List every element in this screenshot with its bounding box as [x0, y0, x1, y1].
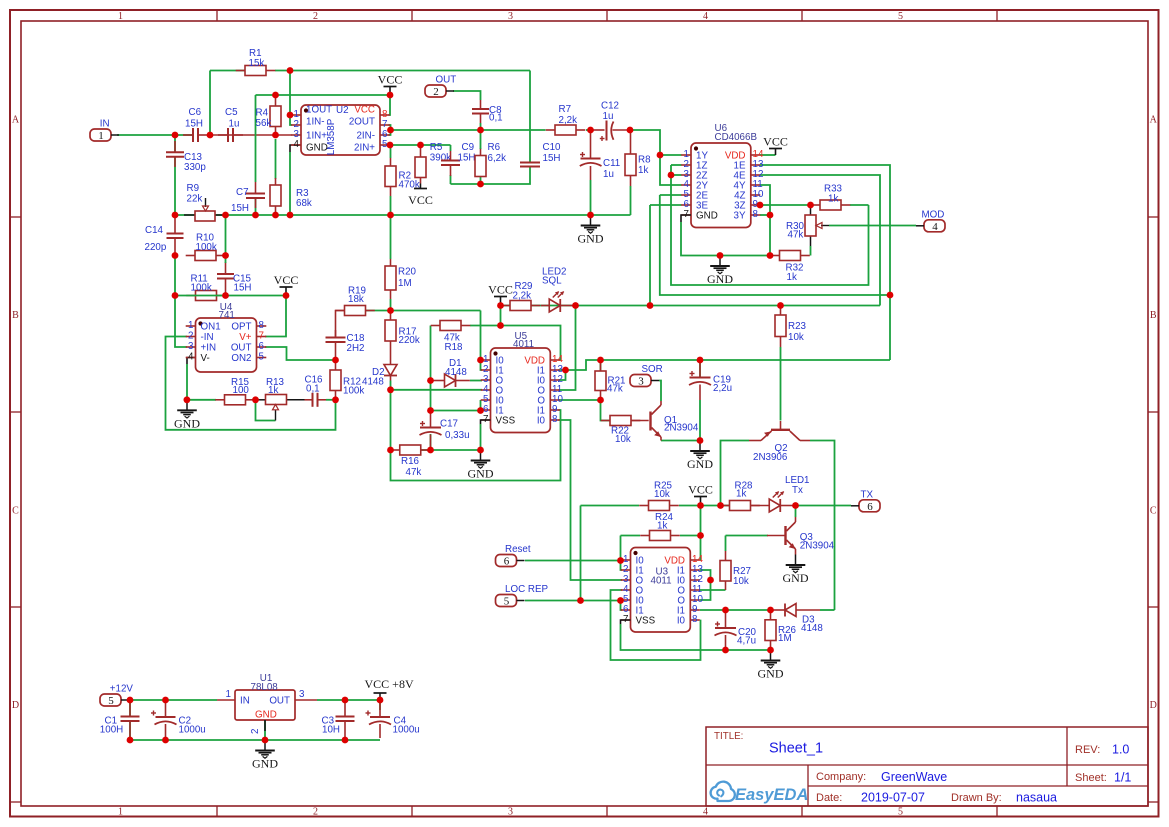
svg-text:VCC: VCC — [354, 105, 375, 116]
wire VCC to U4 pin7 — [265, 296, 286, 337]
svg-text:1IN-: 1IN- — [306, 117, 325, 128]
wire R1 left — [210, 70, 246, 72]
wire C8 bottom to row — [480, 123, 482, 130]
label R10 — [196, 233, 217, 254]
wire C16 to R12 — [326, 399, 336, 401]
label R16 — [401, 456, 421, 478]
svg-text:2019-07-07: 2019-07-07 — [861, 791, 925, 805]
label U4 — [219, 302, 235, 321]
wire U6 pin3 — [671, 174, 682, 176]
resistor R15 — [215, 395, 255, 405]
title block texts — [714, 731, 1131, 805]
pin 8 (VCC) of U2 — [354, 105, 389, 121]
resistor R26 — [765, 610, 776, 650]
wire R27 bottom to U3 pin11 — [700, 589, 726, 591]
svg-text:2,2k: 2,2k — [559, 115, 578, 126]
svg-text:C14: C14 — [145, 225, 164, 236]
label R3 — [296, 188, 312, 209]
wire +8V rail right — [317, 699, 380, 701]
wire OUT port to C8 — [453, 91, 481, 100]
port TX — [851, 489, 880, 513]
wire LED row y305 — [501, 305, 881, 307]
label C1 — [100, 716, 123, 736]
pin 13 (I1) of U3 — [677, 564, 704, 577]
capacitor C15 — [217, 262, 234, 296]
pin 9 (3Z) of U6 — [734, 199, 760, 212]
svg-text:R16: R16 — [401, 456, 420, 467]
svg-text:Reset: Reset — [505, 544, 531, 555]
wire R7 to C11 node — [586, 129, 591, 131]
pin 13 (1E) of U6 — [734, 159, 764, 172]
wire VCC row y95 — [256, 94, 391, 96]
svg-text:78L08: 78L08 — [251, 682, 279, 693]
svg-text:R5: R5 — [430, 142, 443, 153]
capacitor C8 — [472, 100, 489, 123]
pin 3 (O) of U5 — [481, 374, 504, 387]
svg-text:VCC: VCC — [688, 483, 713, 497]
pin 7 (2OUT) of U2 — [349, 117, 390, 131]
svg-text:0,1: 0,1 — [306, 384, 320, 395]
wire R4-R3 column — [275, 139, 277, 179]
wire U1 GND pin — [264, 720, 266, 740]
pin 11 (4Y) of U6 — [734, 179, 763, 192]
pin 8 (I0) of U3 — [677, 614, 700, 627]
svg-text:V+: V+ — [239, 332, 252, 343]
label R1 — [249, 48, 265, 69]
label C13 — [184, 152, 206, 173]
pin 2 (1Z) of U6 — [681, 159, 707, 172]
wire U4 pin4 lead — [187, 358, 196, 365]
wire U5 pins 12-13 tie — [559, 370, 566, 380]
svg-text:100k: 100k — [196, 242, 217, 253]
wire R1 left down to input node — [209, 71, 211, 136]
svg-text:Sheet:: Sheet: — [1075, 772, 1107, 784]
label LED1 — [785, 475, 810, 496]
label C3 — [322, 716, 340, 736]
wire R25 right to VCC node — [679, 505, 701, 507]
diode D3 — [771, 604, 821, 617]
wire to R22 — [601, 400, 611, 421]
resistor R28 — [720, 501, 760, 511]
port IN — [90, 119, 119, 143]
label R19 — [348, 286, 366, 306]
wire Q2 collector down to D3 — [810, 441, 835, 611]
svg-text:GND: GND — [758, 667, 784, 681]
svg-text:1: 1 — [98, 130, 104, 142]
svg-text:2H2: 2H2 — [347, 343, 365, 354]
svg-text:R18: R18 — [445, 342, 464, 353]
svg-text:47k: 47k — [788, 230, 804, 241]
label C20 — [737, 627, 757, 647]
wire oscillator net y360 — [566, 360, 891, 370]
wire C12/R8 node to U6 pins 1,4 — [630, 130, 682, 185]
label U3 — [651, 567, 672, 587]
wire C10 bottom row — [451, 167, 531, 184]
ground GND7 — [758, 650, 784, 681]
LED LED1 — [769, 492, 795, 513]
wire R25 to LOC REP net — [580, 506, 582, 601]
resistor R4 — [270, 95, 281, 135]
svg-text:2N3906: 2N3906 — [753, 452, 788, 463]
pin 12 (4E) of U6 — [734, 169, 764, 182]
capacitor C6 — [183, 128, 209, 142]
label D3 — [801, 615, 823, 635]
svg-text:C7: C7 — [236, 187, 249, 198]
pin 5 (2E) of U6 — [681, 189, 708, 202]
svg-text:1k: 1k — [638, 165, 648, 176]
ground GND8 — [252, 740, 278, 771]
svg-text:VCC: VCC — [378, 73, 403, 87]
label R4 — [256, 108, 272, 130]
pin 2 (-IN) of U4 — [186, 331, 214, 344]
resistor R33 — [811, 200, 851, 210]
wire D3 right to column — [820, 609, 835, 611]
potentiometer R30 — [805, 205, 829, 246]
resistor R6 — [475, 148, 486, 177]
svg-text:VCC: VCC — [763, 135, 788, 149]
resistor R29 — [501, 301, 541, 311]
pin 3 (O) of U3 — [621, 574, 644, 587]
label R15 — [231, 377, 250, 396]
wire U6 pin11 down to R32 node — [760, 185, 770, 256]
svg-text:1OUT: 1OUT — [306, 105, 332, 116]
wire R24 left — [621, 535, 641, 537]
port OUT — [425, 75, 456, 99]
pin 11 (O) of U5 — [537, 384, 562, 397]
svg-text:2: 2 — [313, 11, 318, 22]
wire U3 pin7 lead — [621, 620, 631, 624]
pin 3 (OUT) of U1 — [269, 689, 317, 707]
wire U2 GND pin down — [289, 152, 291, 215]
svg-text:1000u: 1000u — [179, 725, 206, 736]
transistor Q3 — [767, 517, 796, 555]
svg-text:2OUT: 2OUT — [349, 117, 375, 128]
wire GND to R15 — [187, 399, 216, 401]
wire R2 bottom to GND row — [390, 196, 392, 215]
pin 1 (I0) of U5 — [481, 354, 505, 367]
wire R24 down to Reset net — [620, 536, 622, 561]
svg-text:5: 5 — [898, 807, 903, 818]
wire C7 column upper — [255, 95, 257, 182]
resistor R19 — [335, 306, 375, 316]
capacitor C16 — [305, 393, 327, 407]
resistor R7 — [546, 125, 586, 135]
IC body U3 — [631, 548, 691, 633]
resistor R25 — [639, 501, 679, 511]
wire U6 pin7 lead — [681, 215, 691, 222]
label R5 — [430, 142, 451, 164]
label R7 — [559, 104, 578, 126]
diode D1 — [431, 374, 470, 387]
svg-text:22k: 22k — [187, 194, 203, 205]
svg-text:Tx: Tx — [792, 485, 803, 496]
pin 5 (ON2) of U4 — [231, 352, 266, 365]
svg-text:7: 7 — [259, 331, 264, 342]
resistor R27 — [720, 551, 731, 590]
svg-text:2: 2 — [313, 807, 318, 818]
resistor R12 — [330, 360, 341, 400]
svg-text:OPT: OPT — [231, 322, 251, 333]
wire down to R16 — [390, 390, 392, 450]
wire U2 pin4 lead — [290, 145, 301, 152]
svg-text:10k: 10k — [654, 489, 670, 500]
svg-text:1: 1 — [118, 11, 123, 22]
pin 7 (VSS) of U3 — [621, 614, 656, 627]
pin 8 (3Y) of U6 — [734, 209, 761, 222]
ground GND6 — [783, 555, 809, 586]
wire C7 column lower — [255, 198, 257, 215]
svg-text:1u: 1u — [229, 119, 240, 130]
port SOR — [630, 364, 663, 388]
label R11 — [191, 274, 212, 294]
wire R18 right — [470, 325, 501, 327]
svg-text:SQL: SQL — [542, 276, 562, 287]
wire feedback to U4 pin2 — [166, 337, 336, 430]
potentiometer R13 — [256, 395, 305, 421]
wire LOC REP to U3 pins 5-6 — [525, 600, 621, 602]
pin 12 (I0) of U5 — [537, 374, 563, 387]
pin 6 (I1) of U5 — [481, 404, 504, 417]
capacitor C20 — [715, 610, 737, 650]
label U2 — [326, 105, 349, 155]
label C19 — [713, 375, 732, 395]
wire U5 VSS down to ground — [480, 424, 482, 450]
svg-text:GreenWave: GreenWave — [881, 770, 947, 784]
svg-text:VSS: VSS — [636, 616, 656, 627]
wire R23 to Q2 base — [780, 347, 782, 421]
svg-text:100k: 100k — [343, 386, 364, 397]
wire input column — [174, 256, 176, 296]
pin 4 (GND) of U2 — [291, 139, 328, 154]
port Reset — [496, 544, 531, 568]
svg-text:GND: GND — [306, 143, 328, 154]
svg-text:GND: GND — [578, 232, 604, 246]
resistor R1 — [236, 66, 276, 76]
capacitor C5 — [218, 128, 243, 142]
wire R1 right / feedback net — [275, 70, 530, 72]
capacitor C10 — [520, 163, 540, 168]
wire U5 pin10 to R21 bottom — [559, 399, 601, 401]
capacitor C1 — [121, 702, 140, 738]
svg-text:2N3904: 2N3904 — [800, 541, 835, 552]
wire D2 to U5 pin4 — [391, 389, 483, 391]
svg-text:4: 4 — [294, 139, 300, 150]
svg-text:56k: 56k — [256, 118, 272, 129]
ground GND3 — [174, 400, 200, 431]
pin 5 (I0) of U3 — [621, 594, 645, 607]
wire R16 node to U5 pin9 — [391, 410, 561, 481]
svg-text:C5: C5 — [225, 107, 238, 118]
wire tie pin6 — [621, 601, 623, 611]
label R26 — [778, 625, 797, 644]
svg-text:741: 741 — [219, 310, 235, 321]
resistor R16 — [390, 445, 430, 455]
pin 14 (VDD) of U3 — [664, 554, 703, 567]
label C11 — [603, 158, 620, 180]
label R25 — [654, 481, 673, 501]
svg-text:5: 5 — [504, 596, 510, 608]
svg-text:VSS: VSS — [496, 416, 516, 427]
svg-text:B: B — [12, 310, 19, 321]
svg-text:R20: R20 — [398, 267, 417, 278]
svg-text:15H: 15H — [185, 119, 203, 130]
svg-text:4148: 4148 — [362, 377, 384, 388]
label R30 — [786, 221, 805, 241]
svg-text:R4: R4 — [256, 108, 269, 119]
ground GND5 — [687, 441, 713, 472]
power VCC below R5 — [408, 184, 433, 208]
label D2 — [362, 367, 385, 388]
wire R27 top to Q3 base — [726, 535, 769, 537]
svg-text:Date:: Date: — [816, 792, 842, 804]
svg-text:47k: 47k — [406, 467, 422, 478]
pin 2 (I1) of U3 — [621, 564, 644, 577]
svg-text:SOR: SOR — [642, 364, 663, 375]
IC body U4 — [196, 318, 257, 372]
svg-text:R23: R23 — [788, 321, 807, 332]
wire C9 bottom — [450, 175, 452, 184]
svg-text:0,33u: 0,33u — [445, 430, 470, 441]
potentiometer R9 — [184, 198, 226, 221]
label C17 — [440, 419, 470, 442]
capacitor C13 — [166, 141, 184, 167]
title block frame — [706, 727, 1148, 806]
label R6 — [488, 142, 507, 164]
wire R21 top — [600, 360, 602, 371]
resistor R5 — [415, 145, 426, 184]
capacitor C18 — [326, 330, 346, 360]
label R21 — [607, 376, 625, 395]
svg-text:B: B — [1150, 310, 1157, 321]
wire 2E net y295 — [660, 195, 890, 295]
label R29 — [513, 281, 533, 302]
svg-text:2: 2 — [433, 86, 439, 98]
svg-text:1IN+: 1IN+ — [306, 131, 327, 142]
wire R33 right — [850, 204, 869, 206]
transistor Q2 — [749, 421, 810, 441]
svg-text:8: 8 — [692, 614, 698, 625]
svg-text:1: 1 — [226, 689, 231, 700]
capacitor C7 — [246, 182, 265, 208]
resistor R21 — [595, 360, 606, 400]
svg-text:8: 8 — [753, 209, 759, 220]
svg-text:ON2: ON2 — [231, 353, 251, 364]
svg-text:I0: I0 — [677, 616, 686, 627]
wire Reset to U3 pins 1-2 — [525, 560, 621, 562]
svg-text:1u: 1u — [603, 169, 614, 180]
label R23 — [788, 321, 807, 343]
pin 6 (OUT) of U4 — [231, 341, 266, 354]
svg-text:C11: C11 — [603, 158, 620, 169]
capacitor C19 — [689, 360, 711, 400]
svg-text:6: 6 — [867, 501, 873, 513]
svg-text:D: D — [12, 700, 19, 711]
svg-text:1: 1 — [118, 807, 123, 818]
wire Q2 emitter to VCC row — [721, 441, 750, 506]
wire pin6 row y130 to R7 — [391, 129, 546, 131]
pin 4 (O) of U3 — [621, 584, 644, 597]
pin 10 (4Z) of U6 — [734, 189, 764, 202]
capacitor C3 — [336, 702, 355, 738]
pin 1 (1OUT) of U2 — [291, 105, 332, 121]
svg-text:3Y: 3Y — [734, 211, 746, 222]
wire branch U5 pin1 — [481, 359, 483, 361]
label C9 — [458, 142, 476, 164]
svg-text:2IN+: 2IN+ — [354, 143, 375, 154]
svg-text:C9: C9 — [462, 142, 475, 153]
wire R25 left — [581, 505, 640, 507]
wire down to U5 pins 1-2 — [481, 311, 483, 371]
pin 4 (2Y) of U6 — [681, 179, 708, 192]
pin 7 (V+) of U4 — [239, 331, 266, 344]
wire U4 V- down — [186, 364, 188, 400]
power VCC1 — [378, 73, 403, 96]
svg-text:390k: 390k — [430, 153, 451, 164]
wire R19 to C18 — [336, 311, 345, 338]
svg-text:OUT: OUT — [269, 696, 290, 707]
wire U3 pin9 to C20/R26/D3 — [700, 609, 771, 611]
wire 3E down to LED row — [649, 205, 651, 306]
svg-text:330p: 330p — [184, 162, 206, 173]
svg-text:1: 1 — [188, 320, 193, 331]
resistor R18 — [431, 321, 471, 331]
ground GND2 — [707, 256, 733, 287]
label R17 — [399, 327, 420, 347]
pin 7 (VSS) of U5 — [481, 414, 516, 427]
wire pin5 down to R2 — [390, 145, 392, 158]
svg-text:3: 3 — [188, 341, 194, 352]
label R27 — [733, 566, 751, 587]
svg-text:IN: IN — [240, 696, 250, 707]
svg-text:1/1: 1/1 — [1114, 771, 1131, 785]
pin 6 (2IN-) of U2 — [356, 129, 389, 142]
svg-text:100H: 100H — [100, 725, 123, 736]
svg-text:Sheet_1: Sheet_1 — [769, 741, 823, 757]
svg-text:4: 4 — [703, 807, 708, 818]
svg-text:47k: 47k — [607, 384, 623, 395]
svg-text:4011: 4011 — [513, 339, 534, 350]
wire C4 top — [379, 700, 381, 710]
wire U3 pin3 to U5 pin8 — [559, 420, 623, 580]
svg-text:C: C — [1150, 505, 1157, 516]
svg-text:6: 6 — [504, 556, 510, 568]
pin 4 (V-) of U4 — [186, 352, 210, 365]
svg-text:5: 5 — [259, 352, 265, 363]
label D1 — [445, 358, 467, 378]
capacitor C2 — [151, 702, 177, 738]
pin 3 (+IN) of U4 — [186, 341, 216, 354]
capacitor C17 — [420, 411, 442, 451]
wire VCC down to U3 VDD — [699, 506, 702, 561]
svg-text:1.0: 1.0 — [1112, 743, 1129, 757]
svg-text:nasaua: nasaua — [1016, 791, 1057, 805]
svg-text:3: 3 — [299, 689, 305, 700]
pin 1 (IN) of U1 — [217, 689, 250, 707]
power VCC2 — [274, 273, 299, 294]
capacitor C11 — [580, 130, 602, 180]
svg-text:15k: 15k — [249, 58, 265, 69]
wire R30 wiper to MOD port — [829, 225, 916, 227]
wire R16 to VSS ground node — [421, 449, 481, 451]
label C2 — [179, 716, 206, 736]
label R28 — [735, 481, 754, 500]
svg-text:GND: GND — [255, 710, 277, 721]
wire R28 to LED1 — [751, 505, 770, 507]
wire U6 pin12 4E net — [760, 175, 880, 306]
label R13 — [266, 377, 285, 396]
wire R30 bottom to R32 — [810, 246, 812, 256]
svg-text:REV:: REV: — [1075, 744, 1100, 756]
